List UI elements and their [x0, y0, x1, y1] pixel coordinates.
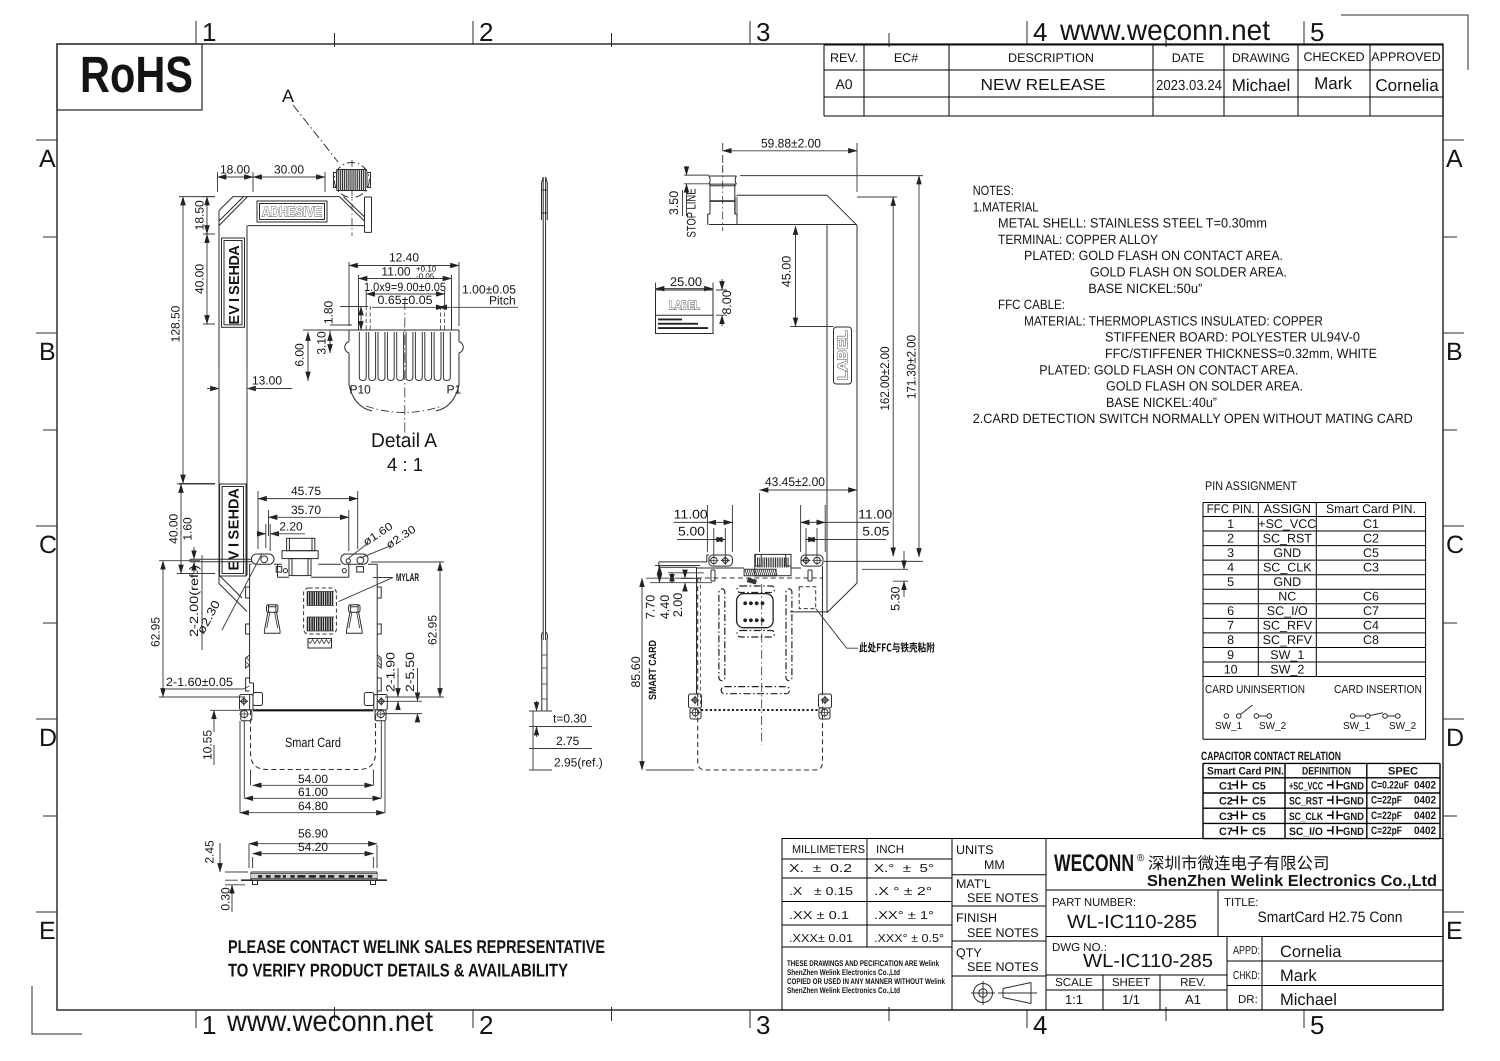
svg-text:4: 4 [1033, 1010, 1047, 1040]
svg-text:t=0.30: t=0.30 [553, 712, 587, 726]
svg-text:D: D [1446, 724, 1464, 752]
svg-text:54.20: 54.20 [298, 840, 328, 854]
svg-text:1.60: 1.60 [181, 517, 195, 541]
svg-text:3: 3 [1227, 546, 1234, 560]
svg-text:PLATED: GOLD FLASH ON CONTACT: PLATED: GOLD FLASH ON CONTACT AREA. [1039, 362, 1298, 377]
svg-text:C5: C5 [1363, 546, 1379, 560]
svg-text:SW_2: SW_2 [1389, 721, 1417, 732]
svg-text:GND: GND [1343, 826, 1364, 838]
svg-text:2.75: 2.75 [556, 734, 580, 748]
RoHS box [57, 44, 202, 110]
svg-text:7: 7 [1227, 619, 1234, 633]
svg-text:V: V [227, 550, 243, 560]
svg-text:ShenZhen Welink Electronics Co: ShenZhen Welink Electronics Co.,Ltd [787, 968, 900, 977]
svg-text:62.95: 62.95 [426, 615, 440, 645]
svg-text:SC_I/O: SC_I/O [1289, 826, 1323, 838]
svg-text:5: 5 [1310, 1010, 1324, 1040]
svg-text:C5: C5 [1252, 780, 1266, 792]
svg-text:GOLD FLASH ON SOLDER AREA.: GOLD FLASH ON SOLDER AREA. [1106, 379, 1303, 394]
svg-text:GOLD FLASH ON SOLDER AREA.: GOLD FLASH ON SOLDER AREA. [1090, 265, 1287, 280]
svg-text:4: 4 [1227, 560, 1234, 574]
svg-text:2.45: 2.45 [203, 840, 217, 864]
svg-text:SW_1: SW_1 [1343, 721, 1371, 732]
svg-text:11.00: 11.00 [674, 508, 708, 522]
svg-text:2: 2 [1227, 531, 1234, 545]
svg-text:ShenZhen Welink Electronics Co: ShenZhen Welink Electronics Co.,Ltd [787, 986, 900, 995]
right assembly: FFC plug [708, 176, 737, 225]
svg-text:Michael: Michael [1280, 991, 1337, 1009]
svg-text:Detail A: Detail A [371, 430, 438, 452]
svg-text:LABEL: LABEL [835, 331, 850, 381]
zone ticks top [196, 21, 1304, 47]
svg-text:C5: C5 [1252, 811, 1266, 823]
svg-text:Mark: Mark [1280, 967, 1317, 985]
svg-text:A: A [227, 488, 243, 499]
svg-text:A0: A0 [835, 76, 852, 92]
svg-text:6.00: 6.00 [293, 343, 307, 367]
svg-text:MYLAR: MYLAR [396, 572, 419, 584]
svg-text:+SC_VCC: +SC_VCC [1258, 517, 1316, 531]
svg-text:2.CARD DETECTION SWITCH NORMAL: 2.CARD DETECTION SWITCH NORMALLY OPEN WI… [973, 411, 1413, 426]
svg-text:X.° ± 5°: X.° ± 5° [874, 863, 934, 875]
svg-text:SEE NOTES: SEE NOTES [967, 960, 1039, 974]
svg-text:FINISH: FINISH [956, 911, 997, 925]
revision table [824, 45, 1443, 116]
svg-text:WECONN: WECONN [1054, 850, 1134, 877]
corner trim mark top-right [1341, 15, 1468, 70]
svg-text:D: D [39, 724, 57, 752]
svg-text:FFC PIN.: FFC PIN. [1207, 502, 1255, 516]
svg-text:A1: A1 [1185, 992, 1201, 1007]
svg-text:CHKD:: CHKD: [1233, 970, 1260, 982]
svg-text:SEE NOTES: SEE NOTES [967, 891, 1039, 905]
svg-text:APPROVED: APPROVED [1371, 50, 1440, 64]
svg-text:SW_2: SW_2 [1259, 721, 1287, 732]
svg-text:2: 2 [479, 1010, 493, 1040]
svg-text:.XX° ± 1°: .XX° ± 1° [874, 910, 934, 922]
svg-text:11.00: 11.00 [858, 508, 892, 522]
svg-text:C1: C1 [1363, 517, 1379, 531]
svg-text:13.00: 13.00 [252, 374, 282, 388]
svg-text:DATE: DATE [1172, 51, 1204, 65]
svg-text:+SC_VCC: +SC_VCC [1289, 780, 1323, 792]
svg-text:3.10: 3.10 [315, 331, 329, 355]
svg-text:40.00: 40.00 [167, 513, 181, 543]
svg-text:B: B [39, 338, 56, 366]
svg-text:Michael: Michael [1232, 76, 1291, 95]
svg-text:2.95(ref.): 2.95(ref.) [554, 756, 603, 770]
svg-text:GND: GND [1273, 546, 1301, 560]
svg-text:.XXX° ± 0.5°: .XXX° ± 0.5° [874, 933, 944, 945]
svg-text:C8: C8 [1363, 633, 1379, 647]
svg-text:NC: NC [1278, 590, 1296, 604]
svg-text:45.00: 45.00 [780, 256, 794, 287]
svg-text:PLEASE CONTACT WELINK SALES RE: PLEASE CONTACT WELINK SALES REPRESENTATI… [228, 936, 605, 957]
svg-text:C5: C5 [1252, 826, 1266, 838]
svg-text:FFC CABLE:: FFC CABLE: [998, 297, 1065, 312]
svg-text:1: 1 [202, 1010, 216, 1040]
svg-text:SC_RFV: SC_RFV [1263, 633, 1313, 647]
svg-text:10: 10 [1224, 662, 1238, 676]
svg-text:.X ° ± 2°: .X ° ± 2° [874, 886, 932, 898]
svg-text:5: 5 [1227, 575, 1234, 589]
svg-text:A: A [1446, 145, 1463, 173]
svg-text:E: E [1446, 917, 1463, 945]
svg-text:64.80: 64.80 [298, 799, 328, 813]
svg-text:C3: C3 [1363, 560, 1379, 574]
svg-text:E: E [227, 315, 243, 325]
svg-text:1/1: 1/1 [1122, 992, 1140, 1007]
svg-text:6: 6 [1227, 604, 1234, 618]
svg-text:25.00: 25.00 [670, 275, 702, 289]
svg-text:C1: C1 [1219, 780, 1233, 792]
svg-text:DR:: DR: [1238, 994, 1258, 1006]
svg-text:4: 4 [1033, 17, 1047, 47]
svg-text:56.90: 56.90 [298, 826, 328, 840]
svg-text:SC_CLK: SC_CLK [1289, 811, 1323, 823]
svg-text:GND: GND [1343, 811, 1364, 823]
svg-text:BASE NICKEL:50u”: BASE NICKEL:50u” [1088, 281, 1202, 296]
svg-text:8.00: 8.00 [720, 290, 734, 314]
svg-text:NOTES:: NOTES: [973, 183, 1014, 198]
svg-text:SW_1: SW_1 [1215, 721, 1243, 732]
svg-text:5: 5 [1310, 17, 1324, 47]
svg-text:1:1: 1:1 [1065, 992, 1083, 1007]
corner trim mark bottom-left [32, 986, 82, 1034]
svg-text:7.70: 7.70 [644, 595, 658, 619]
svg-text:C2: C2 [1219, 796, 1233, 808]
svg-text:62.95: 62.95 [149, 617, 163, 647]
svg-text:C5: C5 [1252, 796, 1266, 808]
svg-text:H: H [227, 265, 243, 275]
svg-text:SC_I/O: SC_I/O [1267, 604, 1308, 618]
svg-text:.X ± 0.15: .X ± 0.15 [789, 886, 853, 898]
svg-text:C6: C6 [1363, 590, 1379, 604]
svg-text:SC_RST: SC_RST [1289, 796, 1323, 808]
svg-text:C3: C3 [1219, 811, 1233, 823]
svg-text:GND: GND [1273, 575, 1301, 589]
svg-text:3.50: 3.50 [667, 191, 681, 215]
svg-text:Smart Card PIN.: Smart Card PIN. [1326, 502, 1416, 516]
svg-text:THESE DRAWINGS AND PECIFICATIO: THESE DRAWINGS AND PECIFICATION ARE Weli… [787, 959, 939, 968]
svg-text:MM: MM [984, 858, 1005, 872]
svg-text:V: V [227, 305, 243, 315]
svg-text:GND: GND [1343, 780, 1364, 792]
svg-text:DESCRIPTION: DESCRIPTION [1008, 51, 1094, 65]
zone ticks left [36, 140, 57, 912]
svg-text:PIN ASSIGNMENT: PIN ASSIGNMENT [1205, 479, 1297, 493]
svg-text:CAPACITOR CONTACT RELATION: CAPACITOR CONTACT RELATION [1201, 749, 1341, 763]
svg-text:1: 1 [202, 17, 216, 47]
svg-text:5.05: 5.05 [862, 525, 889, 539]
svg-text:METAL SHELL: STAINLESS STEEL T: METAL SHELL: STAINLESS STEEL T=0.30mm [998, 216, 1267, 231]
svg-text:1.80: 1.80 [322, 300, 336, 324]
svg-text:D: D [227, 255, 243, 265]
svg-text:ShenZhen Welink Electronics Co: ShenZhen Welink Electronics Co.,Ltd [1147, 873, 1437, 890]
svg-text:C: C [39, 531, 57, 559]
title block [782, 839, 1443, 1011]
svg-text:I: I [227, 543, 243, 547]
notes text block [973, 183, 1413, 426]
svg-text:PLATED: GOLD FLASH ON CONTACT: PLATED: GOLD FLASH ON CONTACT AREA. [1024, 248, 1283, 263]
svg-text:8: 8 [1227, 633, 1234, 647]
svg-text:MAT'L: MAT'L [956, 877, 991, 891]
svg-text:Cornelia: Cornelia [1280, 943, 1342, 961]
svg-text:4.40: 4.40 [658, 595, 672, 619]
svg-text:SPEC: SPEC [1388, 766, 1418, 778]
svg-text:43.45±2.00: 43.45±2.00 [765, 475, 825, 489]
svg-text:H: H [227, 509, 243, 519]
svg-text:ASSIGN: ASSIGN [1264, 502, 1311, 516]
svg-text:2: 2 [479, 17, 493, 47]
svg-text:C7: C7 [1363, 604, 1379, 618]
svg-text:1.MATERIAL: 1.MATERIAL [973, 199, 1039, 214]
svg-text:A: A [39, 145, 56, 173]
svg-text:CARD UNINSERTION: CARD UNINSERTION [1205, 684, 1305, 696]
zone numbers top [202, 17, 1324, 47]
svg-text:.XX ± 0.1: .XX ± 0.1 [789, 910, 849, 922]
svg-text:9: 9 [1227, 648, 1234, 662]
svg-text:FFC/STIFFENER THICKNESS=0.32mm: FFC/STIFFENER THICKNESS=0.32mm, WHITE [1105, 346, 1377, 361]
svg-text:Mark: Mark [1314, 74, 1352, 93]
svg-text:2.00: 2.00 [671, 593, 685, 617]
svg-text:C=0.22uF: C=0.22uF [1371, 779, 1409, 791]
svg-text:2-5.50: 2-5.50 [403, 652, 417, 692]
svg-text:SC_RST: SC_RST [1263, 531, 1313, 545]
svg-text:Pitch: Pitch [489, 294, 516, 308]
svg-text:2-1.60±0.05: 2-1.60±0.05 [166, 675, 233, 689]
svg-text:D: D [227, 499, 243, 509]
svg-text:18.50: 18.50 [193, 200, 207, 230]
Detail A view (FFC end 4:1) [345, 306, 464, 411]
svg-text:E: E [39, 917, 56, 945]
svg-text:WL-IC110-285: WL-IC110-285 [1083, 951, 1213, 972]
svg-text:2.20: 2.20 [279, 520, 303, 534]
svg-text:INCH: INCH [876, 844, 904, 856]
left FFC cable view [219, 173, 372, 612]
zone numbers bottom [202, 1010, 1324, 1040]
svg-text:SW_1: SW_1 [1270, 648, 1304, 662]
svg-text:BASE NICKEL:40u”: BASE NICKEL:40u” [1106, 395, 1217, 410]
svg-text:11.00: 11.00 [381, 265, 410, 279]
svg-text:REV.: REV. [1180, 977, 1206, 989]
svg-text:C=22pF: C=22pF [1371, 795, 1402, 807]
svg-text:0402: 0402 [1414, 825, 1436, 837]
svg-text:WL-IC110-285: WL-IC110-285 [1067, 912, 1197, 933]
svg-text:0402: 0402 [1414, 795, 1436, 807]
svg-text:S: S [227, 530, 243, 540]
svg-text:STIFFENER BOARD: POLYESTER UL9: STIFFENER BOARD: POLYESTER UL94V-0 [1105, 330, 1360, 345]
svg-text:COPIED OR USED IN ANY MANNER W: COPIED OR USED IN ANY MANNER WITHOUT Wel… [787, 977, 945, 986]
svg-text:45.75: 45.75 [291, 484, 321, 498]
svg-text:128.50: 128.50 [169, 305, 183, 342]
bottom side profile view [241, 872, 387, 885]
svg-text:SCALE: SCALE [1055, 977, 1093, 989]
svg-text:2023.03.24: 2023.03.24 [1156, 78, 1222, 94]
zone letters left [39, 145, 57, 945]
svg-text:0402: 0402 [1414, 779, 1436, 791]
svg-text:QTY: QTY [956, 946, 982, 960]
svg-text:®: ® [1137, 853, 1145, 864]
zone ticks right [1443, 140, 1464, 912]
svg-text:5.00: 5.00 [678, 525, 705, 539]
bottom view of connector [659, 554, 832, 719]
svg-text:SMART CARD: SMART CARD [647, 640, 659, 700]
svg-text:0402: 0402 [1414, 810, 1436, 822]
svg-text:DEFINITION: DEFINITION [1302, 766, 1351, 778]
svg-text:3: 3 [756, 1010, 770, 1040]
svg-text:CHECKED: CHECKED [1303, 50, 1364, 64]
svg-text:SC_CLK: SC_CLK [1263, 560, 1312, 574]
svg-text:12.40: 12.40 [389, 251, 419, 265]
svg-text:CARD INSERTION: CARD INSERTION [1334, 684, 1422, 696]
svg-text:3: 3 [756, 17, 770, 47]
svg-text:0.30: 0.30 [219, 887, 233, 911]
svg-text:162.00±2.00: 162.00±2.00 [878, 346, 892, 410]
svg-text:C2: C2 [1363, 531, 1379, 545]
svg-text:TITLE:: TITLE: [1224, 897, 1259, 909]
svg-text:0.65±0.05: 0.65±0.05 [378, 293, 433, 307]
svg-text:18.00: 18.00 [220, 163, 250, 177]
svg-text:RoHS: RoHS [80, 46, 193, 103]
zone letters right [1446, 145, 1464, 945]
svg-text:DRAWING: DRAWING [1232, 51, 1290, 65]
svg-text:.XXX± 0.01: .XXX± 0.01 [789, 933, 853, 945]
svg-text:2-1.90: 2-1.90 [384, 652, 398, 692]
label box on cable [834, 327, 852, 384]
zone ticks bottom [196, 1007, 1304, 1028]
svg-text:54.00: 54.00 [298, 772, 328, 786]
svg-text:P10: P10 [350, 383, 372, 397]
svg-text:1: 1 [1227, 517, 1234, 531]
svg-text:SHEET: SHEET [1112, 977, 1150, 989]
svg-text:171.30±2.00: 171.30±2.00 [905, 335, 919, 399]
svg-text:C: C [1446, 531, 1464, 559]
svg-text:EC#: EC# [894, 51, 918, 65]
svg-text:UNITS: UNITS [956, 843, 994, 857]
svg-text:C4: C4 [1363, 619, 1379, 633]
central connector top view [246, 538, 382, 710]
svg-text:E: E [227, 275, 243, 285]
svg-text:5.30: 5.30 [889, 586, 903, 610]
svg-text:Smart Card PIN.: Smart Card PIN. [1207, 766, 1284, 778]
svg-text:LABEL: LABEL [669, 299, 700, 313]
svg-text:PART NUMBER:: PART NUMBER: [1052, 897, 1136, 909]
svg-text:C=22pF: C=22pF [1371, 810, 1402, 822]
svg-text:35.70: 35.70 [291, 503, 321, 517]
svg-text:61.00: 61.00 [298, 785, 328, 799]
svg-text:SmartCard H2.75 Conn: SmartCard H2.75 Conn [1258, 909, 1403, 926]
svg-text:MATERIAL: THERMOPLASTICS INSUL: MATERIAL: THERMOPLASTICS INSULATED: COPP… [1024, 313, 1323, 328]
svg-text:www.weconn.net: www.weconn.net [1059, 15, 1270, 47]
svg-text:85.60: 85.60 [629, 656, 643, 687]
thin side profile view [541, 177, 547, 711]
svg-text:MILLIMETERS: MILLIMETERS [792, 844, 865, 856]
svg-text:REV.: REV. [830, 51, 858, 65]
svg-text:GND: GND [1343, 796, 1364, 808]
svg-text:4 : 1: 4 : 1 [387, 455, 423, 476]
svg-text:B: B [1446, 338, 1463, 366]
svg-text:A: A [227, 245, 243, 256]
label spec box [656, 290, 714, 334]
svg-text:30.00: 30.00 [274, 163, 304, 177]
svg-text:NEW RELEASE: NEW RELEASE [981, 77, 1106, 94]
svg-text:Cornelia: Cornelia [1375, 76, 1439, 95]
svg-text:10.55: 10.55 [201, 730, 215, 760]
svg-text:I: I [227, 298, 243, 302]
svg-text:C7: C7 [1219, 826, 1233, 838]
svg-text:ADHESIVE: ADHESIVE [262, 204, 322, 220]
svg-text:TERMINAL: COPPER ALLOY: TERMINAL: COPPER ALLOY [998, 232, 1158, 247]
svg-text:P1: P1 [447, 383, 462, 397]
svg-text:SW_2: SW_2 [1270, 662, 1304, 676]
svg-text:www.weconn.net: www.weconn.net [226, 1006, 433, 1038]
svg-text:A: A [282, 86, 294, 106]
svg-text:59.88±2.00: 59.88±2.00 [761, 137, 821, 151]
svg-text:40.00: 40.00 [193, 264, 207, 294]
svg-text:SC_RFV: SC_RFV [1263, 619, 1313, 633]
svg-text:E: E [227, 519, 243, 529]
svg-text:TO VERIFY PRODUCT DETAILS & AV: TO VERIFY PRODUCT DETAILS & AVAILABILITY [228, 960, 569, 981]
svg-text:SEE NOTES: SEE NOTES [967, 926, 1039, 940]
svg-text:S: S [227, 285, 243, 295]
svg-text:C=22pF: C=22pF [1371, 825, 1402, 837]
svg-text:STOP LINE: STOP LINE [685, 189, 699, 238]
svg-text:X. ± 0.2: X. ± 0.2 [789, 863, 852, 875]
svg-text:APPD:: APPD: [1233, 945, 1260, 957]
svg-text:Smart Card: Smart Card [285, 735, 341, 750]
